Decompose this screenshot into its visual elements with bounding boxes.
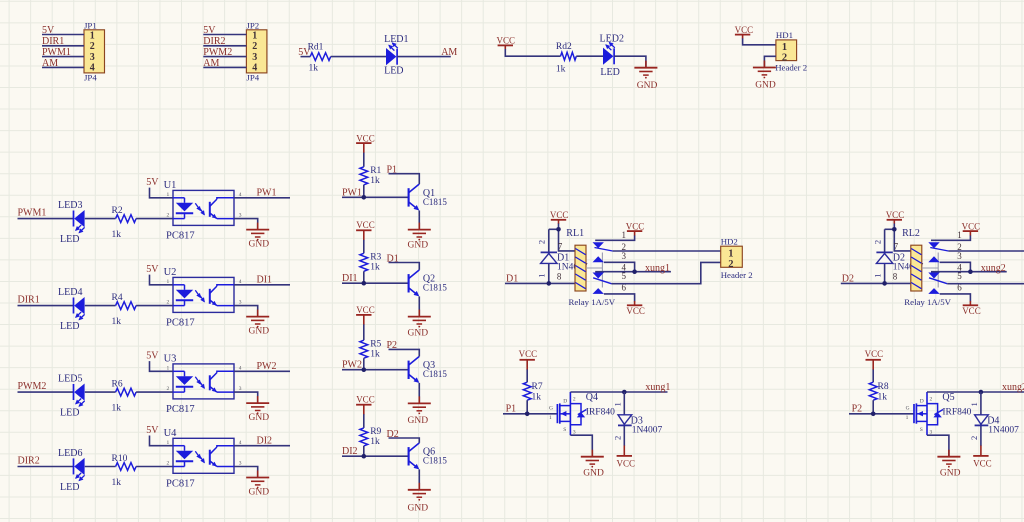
svg-text:3: 3 <box>622 251 627 261</box>
wire Q3 collector to P2 <box>389 349 420 356</box>
power port VCC (Rd2) <box>497 36 516 50</box>
svg-text:Rd1: Rd1 <box>308 43 324 53</box>
svg-text:S: S <box>920 427 923 433</box>
svg-text:1k: 1k <box>878 393 888 403</box>
svg-text:GND: GND <box>249 413 270 423</box>
svg-text:1: 1 <box>613 402 623 406</box>
wire Q5 source to GND <box>927 435 949 457</box>
net label D1 (collector) <box>387 253 399 264</box>
opto-coupler U1 PC817 <box>164 180 242 242</box>
power port VCC (RL1 coil) <box>550 210 569 224</box>
svg-text:1: 1 <box>622 230 627 240</box>
ground GND (Q2) <box>408 310 431 339</box>
svg-text:xung1: xung1 <box>645 382 670 393</box>
wire JP1 5V <box>42 34 84 36</box>
transistor Q5 IRF840 <box>906 392 972 436</box>
svg-text:U3: U3 <box>164 354 177 365</box>
svg-text:VCC: VCC <box>550 210 569 220</box>
opto-coupler U2 PC817 <box>164 267 242 329</box>
svg-text:D: D <box>563 399 567 405</box>
svg-text:1k: 1k <box>112 317 122 327</box>
wire HD1 pin 2 to GND <box>764 56 776 67</box>
svg-text:1: 1 <box>167 440 170 446</box>
wire JP2 5V <box>203 34 246 36</box>
svg-text:2: 2 <box>613 436 623 440</box>
svg-text:1: 1 <box>167 366 170 372</box>
relay RL1 Relay 1A/5V <box>557 228 627 307</box>
svg-text:DI2: DI2 <box>257 436 273 447</box>
resistor R10 1k <box>112 454 137 488</box>
ground GND (Q4) <box>581 450 604 479</box>
ground GND (Q3) <box>408 396 431 426</box>
svg-text:5V: 5V <box>146 264 159 275</box>
svg-text:R1: R1 <box>370 166 381 176</box>
wire U1 pin 3 to GND <box>234 219 258 230</box>
wire VCC to R1 <box>363 153 365 167</box>
svg-text:1k: 1k <box>370 350 380 360</box>
power port VCC (R8) <box>865 349 884 370</box>
svg-text:DIR2: DIR2 <box>203 36 225 47</box>
svg-text:2: 2 <box>252 41 257 52</box>
svg-text:8: 8 <box>893 272 898 282</box>
svg-text:1N4007: 1N4007 <box>632 426 663 436</box>
wire PWM2 to LED5 <box>18 391 74 393</box>
wire U1 pin 4 to PW1 <box>234 197 290 199</box>
connector JP2 <box>246 21 267 83</box>
svg-text:xung2: xung2 <box>981 263 1006 274</box>
power port VCC (R1) <box>356 134 375 154</box>
svg-text:LED3: LED3 <box>58 200 82 211</box>
wire Q4 drain / xung1 <box>570 391 667 393</box>
net label 5V (U3) <box>146 351 159 362</box>
svg-text:2: 2 <box>167 461 170 467</box>
svg-text:G: G <box>906 405 910 411</box>
svg-text:1: 1 <box>167 279 170 285</box>
wire LED1 to AM <box>397 56 451 58</box>
junction P2/R8 <box>871 412 876 417</box>
wire Q1 emitter to GND <box>418 211 420 230</box>
wire PW1 to Q1 base <box>342 196 409 198</box>
svg-text:5V: 5V <box>203 25 216 36</box>
svg-text:5V: 5V <box>42 25 55 36</box>
svg-text:PWM2: PWM2 <box>18 381 47 392</box>
net label D1 (coil) <box>506 274 518 285</box>
net label PWM1 (JP1) <box>42 47 71 58</box>
junction xung2 <box>968 269 973 274</box>
svg-text:1k: 1k <box>370 263 380 273</box>
wire U2 pin 4 to DI1 <box>234 284 290 286</box>
wire R9 to base junction <box>363 446 365 456</box>
diode D3 1N4007 <box>613 392 663 446</box>
transistor Q3 C1815 <box>409 356 448 383</box>
svg-text:PWM1: PWM1 <box>18 208 47 219</box>
net label xung2 (relay) <box>981 263 1006 274</box>
svg-text:R10: R10 <box>112 454 128 464</box>
resistor R2 1k <box>112 206 137 240</box>
net label 5V (JP1) <box>42 25 55 36</box>
svg-text:PWM1: PWM1 <box>42 47 71 58</box>
junction VCC/D1 <box>556 227 561 232</box>
junction DI1/R3 <box>362 281 367 286</box>
wire Q6 collector to D2 <box>389 438 420 443</box>
wire Rd2 to LED2 <box>576 55 603 57</box>
svg-text:GND: GND <box>408 416 429 426</box>
power port VCC (D4) <box>973 446 992 469</box>
svg-text:1: 1 <box>167 192 170 198</box>
svg-text:PC817: PC817 <box>166 231 195 242</box>
svg-text:1k: 1k <box>370 176 380 186</box>
wire RL1 pin 1 to VCC <box>595 235 634 240</box>
svg-text:LED: LED <box>384 66 403 77</box>
svg-text:D2: D2 <box>387 429 399 440</box>
svg-text:3: 3 <box>90 52 95 63</box>
svg-text:3: 3 <box>239 213 242 219</box>
svg-text:LED: LED <box>600 67 619 78</box>
svg-text:1: 1 <box>537 274 547 278</box>
svg-text:5V: 5V <box>146 351 159 362</box>
opto-coupler U4 PC817 <box>164 428 242 490</box>
ground GND (U3) <box>246 396 269 423</box>
resistor R6 1k <box>112 380 137 414</box>
svg-text:2: 2 <box>167 300 170 306</box>
svg-text:HD2: HD2 <box>721 236 738 246</box>
svg-text:2: 2 <box>167 213 170 219</box>
power port VCC (R5) <box>356 305 375 325</box>
svg-text:1k: 1k <box>532 393 542 403</box>
svg-text:1: 1 <box>957 230 962 240</box>
ground GND (HD1) <box>753 61 776 91</box>
resistor R9 1k <box>360 427 382 447</box>
svg-text:1: 1 <box>782 42 787 53</box>
svg-text:VCC: VCC <box>735 25 754 35</box>
svg-text:VCC: VCC <box>356 220 375 230</box>
diode LED2 <box>600 34 624 78</box>
diode LED5 <box>58 374 85 419</box>
wire R7 to P1 <box>526 400 528 414</box>
wire Q1 collector to P1 <box>389 174 420 184</box>
wire RL2 pin 4 / xung2 <box>931 271 1007 273</box>
svg-text:JP4: JP4 <box>84 73 97 83</box>
svg-text:Rd2: Rd2 <box>556 42 572 52</box>
transistor Q6 C1815 <box>409 443 448 470</box>
svg-text:2: 2 <box>573 397 576 403</box>
diode LED4 <box>58 287 85 332</box>
net label PW1 (base) <box>342 187 362 198</box>
svg-text:VCC: VCC <box>356 395 375 405</box>
junction P1/R7 <box>525 412 530 417</box>
power port VCC (RL2 coil) <box>886 210 905 224</box>
svg-text:LED: LED <box>60 321 79 332</box>
svg-text:1N4007: 1N4007 <box>988 426 1019 436</box>
svg-text:IRF840: IRF840 <box>586 408 615 418</box>
svg-text:VCC: VCC <box>886 210 905 220</box>
svg-text:Q4: Q4 <box>586 392 598 403</box>
svg-text:GND: GND <box>583 469 604 479</box>
wire P1 to Q4 gate <box>503 413 557 415</box>
wire R4 to U2 pin 2 <box>136 305 173 307</box>
wire RL2 pin 1 to VCC <box>931 235 970 240</box>
svg-text:R4: R4 <box>112 293 123 303</box>
svg-text:JP2: JP2 <box>246 21 259 31</box>
svg-text:LED: LED <box>60 482 79 493</box>
net label 5V (JP2) <box>203 25 216 36</box>
svg-text:7: 7 <box>558 242 563 252</box>
svg-text:PC817: PC817 <box>166 318 195 329</box>
wire RL1 pin 5 to HD2 pin 2 <box>611 262 720 283</box>
wire P2 to Q5 gate <box>849 413 914 415</box>
resistor R5 1k <box>360 340 382 360</box>
svg-text:LED: LED <box>60 408 79 419</box>
power port VCC (HD1) <box>735 25 754 39</box>
junction PW1/R1 <box>362 195 367 200</box>
svg-text:3: 3 <box>252 52 257 63</box>
svg-text:5: 5 <box>622 271 627 281</box>
connector JP1 <box>84 21 105 83</box>
svg-text:U1: U1 <box>164 180 177 191</box>
svg-text:LED6: LED6 <box>58 448 82 459</box>
resistor R3 1k <box>360 253 382 273</box>
svg-text:JP4: JP4 <box>246 73 259 83</box>
transistor Q2 C1815 <box>409 270 448 297</box>
net label PW1 <box>257 188 277 199</box>
svg-text:VCC: VCC <box>962 306 981 316</box>
svg-text:DI1: DI1 <box>257 275 273 286</box>
wire VCC to R5 <box>363 324 365 340</box>
svg-text:3: 3 <box>239 461 242 467</box>
net label DI2 <box>257 436 273 447</box>
svg-text:Header 2: Header 2 <box>775 63 807 73</box>
wire R5 to base junction <box>363 358 365 370</box>
transistor Q4 IRF840 <box>549 392 615 436</box>
wire RL2 pin 2 (to edge) <box>948 250 1024 252</box>
svg-text:R9: R9 <box>370 427 381 437</box>
net label D2 (collector) <box>387 429 399 440</box>
svg-text:3: 3 <box>239 300 242 306</box>
svg-text:1k: 1k <box>112 230 122 240</box>
svg-text:2: 2 <box>537 240 547 244</box>
svg-text:PW1: PW1 <box>257 188 277 199</box>
wire Q4 source to GND <box>570 435 592 457</box>
svg-text:AM: AM <box>441 47 457 58</box>
wire D2 to RL2 pin 8 <box>841 282 911 284</box>
svg-text:1: 1 <box>969 402 979 406</box>
svg-text:R3: R3 <box>370 253 381 263</box>
net label DIR1 (JP1) <box>42 36 64 47</box>
wire Q6 emitter to GND <box>418 469 420 489</box>
junction xung1/D3 <box>622 390 627 395</box>
net label P2 (collector) <box>387 340 398 351</box>
power port VCC (R7) <box>519 349 538 370</box>
wire LED5 to R6 <box>85 391 116 393</box>
svg-text:VCC: VCC <box>626 306 645 316</box>
svg-text:GND: GND <box>249 240 270 250</box>
wire U3 pin 4 to PW2 <box>234 370 290 372</box>
resistor Rd2 1k <box>556 42 576 74</box>
svg-text:C1815: C1815 <box>423 197 448 207</box>
svg-text:8: 8 <box>557 272 562 282</box>
net label P2 <box>852 404 863 415</box>
svg-text:1k: 1k <box>112 478 122 488</box>
wire RL2 pin 3 to pin 4 <box>940 262 971 271</box>
svg-text:VCC: VCC <box>519 349 538 359</box>
svg-text:VCC: VCC <box>962 221 981 231</box>
wire D1 to RL1 pin 8 <box>505 282 575 284</box>
svg-text:VCC: VCC <box>497 36 516 46</box>
svg-text:VCC: VCC <box>356 305 375 315</box>
wire VCC to R7 <box>526 370 528 383</box>
svg-text:R7: R7 <box>532 382 543 392</box>
ground GND (U2) <box>246 310 269 337</box>
wire VCC to RL1 pin 7 / D1 <box>549 224 575 251</box>
net label P1 (collector) <box>387 165 398 176</box>
net label DI1 <box>257 275 273 286</box>
svg-text:AM: AM <box>203 58 219 69</box>
net label DI1 (base) <box>342 273 358 284</box>
svg-text:LED: LED <box>60 234 79 245</box>
svg-text:HD1: HD1 <box>776 30 793 40</box>
svg-text:1: 1 <box>90 31 95 42</box>
wire R6 to U3 pin 2 <box>136 391 173 393</box>
junction DI2/R9 <box>362 454 367 459</box>
svg-text:PW2: PW2 <box>257 361 277 372</box>
net label 5V (Rd1) <box>298 47 311 58</box>
wire Q3 emitter to GND <box>418 383 420 404</box>
wire JP1 PWM1 <box>42 56 84 58</box>
wire Rd1 to LED1 <box>331 56 386 58</box>
svg-text:Q5: Q5 <box>942 392 954 403</box>
wire RL1 pin 4 / xung1 <box>595 271 671 273</box>
svg-text:5: 5 <box>957 271 962 281</box>
svg-text:R6: R6 <box>112 380 123 390</box>
svg-text:PC817: PC817 <box>166 479 195 490</box>
svg-text:1: 1 <box>872 274 882 278</box>
svg-text:3: 3 <box>957 251 962 261</box>
net label 5V (U2) <box>146 264 159 275</box>
svg-text:GND: GND <box>408 241 429 251</box>
net label AM (JP1) <box>42 58 58 69</box>
wire RL1 pin 3 to pin 4 <box>604 262 635 271</box>
wire U3 pin 3 to GND <box>234 392 258 403</box>
wire VCC to HD1 pin 1 <box>743 38 776 44</box>
svg-text:P1: P1 <box>387 165 398 176</box>
power port VCC (R3) <box>356 220 375 240</box>
wire VCC to R3 <box>363 240 365 254</box>
ground GND (LED2) <box>634 61 657 91</box>
svg-text:D1: D1 <box>387 253 399 264</box>
wire Q5 drain / xung2 <box>927 391 1024 393</box>
power port VCC (RL1 pin 6) <box>626 301 645 316</box>
diode LED6 <box>58 448 85 493</box>
svg-text:1: 1 <box>906 415 909 421</box>
svg-text:JP1: JP1 <box>84 21 97 31</box>
ground GND (Q1) <box>408 223 431 251</box>
ground GND (U4) <box>246 471 269 498</box>
wire VCC to R9 <box>363 414 365 428</box>
diode LED1 <box>384 34 408 77</box>
net label 5V (U4) <box>146 425 159 436</box>
wire LED6 to R10 <box>85 466 116 468</box>
net label DIR2 <box>18 456 40 467</box>
svg-text:7: 7 <box>894 242 899 252</box>
diode D2 1N4007 <box>872 229 923 283</box>
svg-text:VCC: VCC <box>865 349 884 359</box>
wire 5V to U3 pin 1 <box>150 361 174 371</box>
svg-text:R8: R8 <box>878 382 889 392</box>
wire VCC to RL2 pin 7 / D2 <box>885 224 911 251</box>
wire U2 pin 3 to GND <box>234 306 258 317</box>
connector HD1 <box>775 30 807 72</box>
resistor Rd1 1k <box>308 43 331 74</box>
svg-text:2: 2 <box>872 240 882 244</box>
svg-text:P2: P2 <box>387 340 398 351</box>
ground GND (Q5) <box>937 450 960 479</box>
transistor Q1 C1815 <box>409 184 448 211</box>
wire LED4 to R4 <box>85 305 116 307</box>
junction PW2/R5 <box>362 367 367 372</box>
net label PWM1 <box>18 208 47 219</box>
net label xung1 (relay) <box>645 263 670 274</box>
svg-text:RL1: RL1 <box>566 228 584 239</box>
svg-text:C1815: C1815 <box>423 283 448 293</box>
svg-text:DIR1: DIR1 <box>18 295 40 306</box>
svg-text:R5: R5 <box>370 340 381 350</box>
wire DI2 to Q6 base <box>342 455 409 457</box>
svg-text:GND: GND <box>755 80 776 90</box>
junction D1/D1 <box>547 281 552 286</box>
wire VCC to Rd2 <box>505 49 560 56</box>
svg-text:5V: 5V <box>146 425 159 436</box>
resistor R1 1k <box>360 166 382 186</box>
svg-text:C1815: C1815 <box>423 369 448 379</box>
svg-text:GND: GND <box>940 469 961 479</box>
svg-text:D: D <box>920 399 924 405</box>
svg-text:VCC: VCC <box>356 134 375 144</box>
wire DIR1 to LED4 <box>18 305 74 307</box>
ground GND (Q6) <box>408 483 431 514</box>
wire JP2 DIR2 <box>203 45 246 47</box>
net label PWM2 (JP2) <box>203 47 232 58</box>
junction xung2/D4 <box>979 390 984 395</box>
svg-text:5V: 5V <box>146 177 159 188</box>
svg-text:VCC: VCC <box>617 458 636 468</box>
wire U4 pin 3 to GND <box>234 467 258 478</box>
svg-text:1: 1 <box>252 31 257 42</box>
svg-text:3: 3 <box>239 386 242 392</box>
wire JP1 AM <box>42 66 84 68</box>
wire R10 to U4 pin 2 <box>136 466 173 468</box>
svg-text:GND: GND <box>637 81 658 91</box>
wire Q2 emitter to GND <box>418 296 420 316</box>
diode D4 1N4007 <box>969 392 1019 446</box>
wire RL1 pin 6 to VCC <box>604 294 635 302</box>
wire 5V to U4 pin 1 <box>150 436 174 446</box>
svg-text:S: S <box>563 427 566 433</box>
junction D2/D2 <box>882 281 887 286</box>
net label D2 (coil) <box>842 274 854 285</box>
net label AM (JP2) <box>203 58 219 69</box>
net label xung2 (drain) <box>1002 382 1024 393</box>
svg-text:GND: GND <box>249 488 270 498</box>
wire R2 to U1 pin 2 <box>136 218 173 220</box>
svg-text:2: 2 <box>90 41 95 52</box>
svg-text:1k: 1k <box>309 64 319 74</box>
svg-text:LED5: LED5 <box>58 374 82 385</box>
power port VCC (R9) <box>356 395 375 415</box>
wire U4 pin 4 to DI2 <box>234 445 290 447</box>
svg-text:Relay 1A/5V: Relay 1A/5V <box>569 297 616 307</box>
wire RL2 pin 6 to VCC <box>940 294 971 302</box>
svg-text:G: G <box>549 405 553 411</box>
